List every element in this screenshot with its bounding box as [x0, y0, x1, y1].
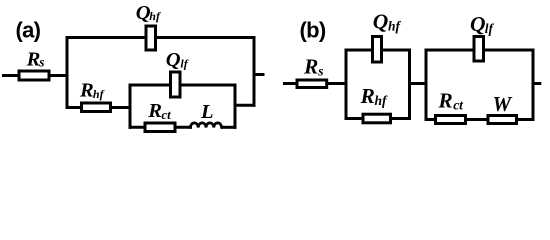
wire box1 top branch right segment (b): [381, 49, 411, 52]
svg-text:s: s: [317, 63, 323, 78]
label Rs (a): [26, 49, 45, 71]
svg-text:hf: hf: [149, 9, 161, 23]
CPE Qhf (a): [146, 26, 156, 50]
wire inner box right vertical (a): [234, 84, 237, 129]
CPE Qlf (a): [171, 72, 181, 97]
label Qhf (a): [136, 2, 161, 24]
svg-text:Q: Q: [166, 49, 181, 71]
label Rct (a): [147, 100, 171, 122]
svg-text:hf: hf: [375, 93, 389, 108]
svg-text:Q: Q: [470, 12, 486, 36]
svg-text:R: R: [303, 54, 318, 78]
resistor W (b): [488, 116, 517, 124]
wire input lead (b): [283, 82, 299, 85]
resistor Rs (b): [297, 80, 327, 88]
svg-text:R: R: [437, 89, 452, 113]
svg-text:(b): (b): [300, 17, 326, 42]
label Qlf (a): [166, 49, 189, 71]
wire box2 top branch right segment (b): [484, 49, 535, 52]
svg-text:R: R: [79, 80, 94, 102]
label Rct (b): [437, 89, 464, 113]
svg-text:ct: ct: [161, 107, 171, 122]
wire box1 right vertical (b): [408, 49, 411, 121]
wire box2 top branch left segment (b): [425, 49, 476, 52]
wire right branch vertical (a): [253, 36, 256, 107]
wire inner top branch right segment (a): [180, 84, 237, 87]
wire top branch left segment (a): [66, 36, 148, 39]
wire output lead (a): [254, 73, 265, 76]
wire L to inner box right (a): [222, 126, 237, 129]
wire output lead (b): [533, 82, 541, 85]
svg-text:Q: Q: [373, 10, 389, 34]
svg-text:R: R: [147, 100, 162, 122]
wire inner box to right branch connector (a): [234, 104, 256, 107]
wire Rhf branch left segment (a): [66, 106, 84, 109]
wire box1 left vertical (b): [345, 49, 348, 121]
wire box1 to box2 connector (b): [410, 82, 428, 85]
svg-text:R: R: [26, 49, 41, 71]
label Rs (b): [303, 54, 323, 78]
wire inner box left vertical (a): [129, 84, 132, 129]
label Rhf (b): [360, 84, 389, 108]
wire box1 bottom branch left segment (b): [345, 117, 365, 120]
wire top branch right segment (a): [155, 36, 256, 39]
wire Rct to L (a): [175, 126, 192, 129]
resistor Rs (a): [19, 71, 49, 80]
resistor Rct (b): [436, 116, 466, 124]
wire box2 bottom branch left segment (b): [425, 118, 438, 121]
wire box2 right vertical (b): [532, 49, 535, 122]
svg-text:(a): (a): [16, 18, 41, 43]
wire Rhf to inner box (a): [111, 106, 132, 109]
wire Rhf to box1 right (b): [391, 117, 412, 120]
CPE Qlf (b): [474, 37, 484, 62]
resistor Rhf (b): [363, 114, 391, 123]
svg-text:L: L: [200, 101, 214, 123]
wire Rct to W (b): [466, 118, 490, 121]
resistor Rct (a): [145, 123, 175, 132]
wire left branch vertical (a): [66, 36, 69, 109]
label Qlf (b): [470, 12, 495, 36]
wire inner top branch left segment (a): [129, 84, 172, 87]
svg-text:hf: hf: [388, 19, 402, 34]
wire inner bottom branch left segment (a): [129, 126, 147, 129]
resistor Rhf (a): [82, 103, 111, 112]
wire box2 left vertical (b): [425, 49, 428, 122]
inductor L (a): [190, 123, 221, 128]
svg-text:s: s: [38, 54, 44, 69]
svg-text:W: W: [493, 92, 513, 116]
label Qhf (b): [373, 10, 402, 34]
svg-text:lf: lf: [485, 21, 495, 36]
svg-text:lf: lf: [180, 56, 188, 70]
wire W to box2 right (b): [517, 118, 535, 121]
label Rhf (a): [79, 80, 105, 102]
CPE Qhf (b): [373, 37, 382, 63]
wire Rs to left junction (a): [49, 74, 69, 77]
wire box1 top branch left segment (b): [345, 49, 374, 52]
wire input lead (a): [2, 74, 19, 77]
svg-text:R: R: [360, 84, 375, 108]
svg-text:ct: ct: [453, 97, 464, 112]
wire Rs to box1 (b): [327, 82, 348, 85]
svg-text:hf: hf: [93, 87, 105, 101]
